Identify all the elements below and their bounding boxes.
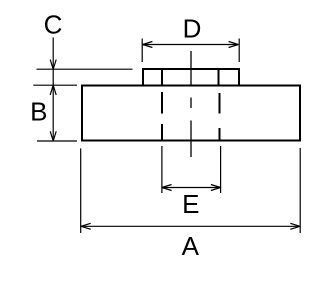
extension line A right <box>299 148 301 233</box>
arrow E left <box>162 185 172 191</box>
svg-text:A: A <box>182 231 200 261</box>
arrow D left <box>143 42 153 48</box>
boss hex flat line left <box>161 69 163 86</box>
svg-text:D: D <box>183 14 202 44</box>
extension line body bottom <box>37 140 77 142</box>
arrow B down <box>50 131 56 141</box>
dimension line A <box>81 225 300 227</box>
extension line A left <box>80 148 82 233</box>
body outline (flange side view) <box>82 86 300 141</box>
arrow D right <box>229 42 239 48</box>
boss hex flat line right <box>218 69 220 86</box>
extension line D left <box>141 39 143 63</box>
hidden hole line right <box>219 93 221 141</box>
svg-text:E: E <box>182 189 199 219</box>
extension line boss top <box>37 68 133 70</box>
boss outline (hex nut side view) <box>143 69 239 86</box>
extension line E right <box>220 146 222 193</box>
hidden hole line left <box>161 92 163 141</box>
svg-text:C: C <box>44 10 63 40</box>
dimension C/B shared stem <box>52 38 54 142</box>
arrow B up <box>50 85 56 95</box>
dimension line D <box>143 44 239 46</box>
arrow C down <box>50 60 56 70</box>
arrow A right <box>290 223 300 229</box>
svg-text:B: B <box>30 97 47 127</box>
extension line E left <box>161 146 163 193</box>
dimension line E <box>162 187 221 189</box>
arrow E right <box>211 185 221 191</box>
centerline <box>190 51 192 157</box>
arrow A left <box>81 223 91 229</box>
extension line D right <box>238 39 240 63</box>
extension line body top <box>33 84 77 86</box>
